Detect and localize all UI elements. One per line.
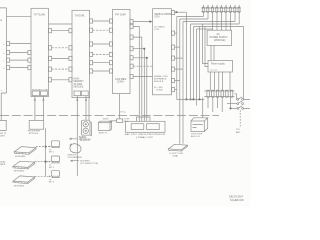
svg-text:MODULE: MODULE <box>29 133 39 135</box>
svg-text:INTERFACE: INTERFACE <box>154 78 167 81</box>
card C bottom text block <box>74 79 85 89</box>
svg-text:a: a <box>1 90 2 92</box>
top run y21.5 <box>183 13 235 22</box>
monitor 3 <box>51 171 59 178</box>
cloud caption <box>68 155 83 160</box>
vertical bundle wire x183 to disk <box>182 22 184 144</box>
wire E pin2 to bundle <box>175 32 177 34</box>
card E body <box>153 9 172 95</box>
svg-text:SET 3: SET 3 <box>49 182 54 184</box>
wire C conn down long bus <box>76 96 78 176</box>
power terminal strip TS1 (top right) <box>201 7 241 12</box>
svg-text:a b c d e: a b c d e <box>210 70 217 72</box>
lower terminal strip TS2 <box>204 90 234 97</box>
svg-text:SET 2: SET 2 <box>49 167 54 169</box>
power supply unit PSU box <box>208 60 233 72</box>
TS1 wires down into AC supply <box>213 13 231 31</box>
svg-text:SET 1: SET 1 <box>49 152 54 154</box>
svg-text:AS IO-01: AS IO-01 <box>191 135 201 138</box>
svg-text:DUAL: DUAL <box>0 161 6 164</box>
svg-text:VIDEO: VIDEO <box>103 118 109 120</box>
wire C to phono jack 1 <box>85 96 87 121</box>
arrowhead into monitor2 <box>49 161 51 163</box>
card D bottom text <box>115 79 126 84</box>
wire card D down to RF modulator <box>119 94 121 119</box>
keyboard bus down <box>45 128 47 176</box>
keyboard bus junctions <box>45 146 47 148</box>
wire TS2 left run y99.4 <box>177 98 205 100</box>
wire C to D y44 <box>93 43 110 45</box>
TV box <box>98 121 111 130</box>
floppy caption <box>170 153 184 158</box>
left power bundle x193.5 <box>193 27 195 100</box>
svg-text:c: c <box>3 61 4 63</box>
wire C to D y21 <box>93 20 110 22</box>
wire B pin3 to C <box>52 57 69 59</box>
svg-text:CONN: CONN <box>156 89 163 91</box>
junction dot v4 <box>146 57 148 59</box>
KB unit caption <box>0 133 7 138</box>
svg-text:17 ma: 17 ma <box>120 111 127 113</box>
top run y26.5 <box>194 26 244 28</box>
left power bundle x196.5 <box>196 29 198 106</box>
vertical power wire v3 <box>133 49 144 122</box>
tape recorder text <box>79 136 91 142</box>
wire E pin6 to bundle <box>175 80 180 82</box>
keyboard slab 1 <box>14 147 36 155</box>
vertical bundle wire x186.4 <box>185 12 187 99</box>
svg-text:MODULE: MODULE <box>154 81 164 83</box>
svg-text:AC: AC <box>217 33 221 36</box>
svg-text:P-P CHIP: P-P CHIP <box>115 14 126 17</box>
PSU bottom stub wires <box>210 72 230 90</box>
wire C to phono jack 2 <box>88 96 90 121</box>
wire RF box to TV <box>110 121 117 123</box>
processor caption <box>125 133 166 139</box>
svg-text:HIGH: HIGH <box>74 79 80 81</box>
wire B conn1 down to keyboard box <box>34 96 36 121</box>
monitor1 caption <box>49 149 54 153</box>
svg-text:UNIT: UNIT <box>0 135 6 137</box>
wire A pin4 to B <box>10 67 28 69</box>
top run y29 <box>197 28 213 30</box>
monitor2 caption <box>49 165 54 169</box>
card D right pins <box>130 20 133 79</box>
svg-text:(MODULE): (MODULE) <box>214 40 226 42</box>
keyboard slab 2 <box>13 161 35 169</box>
right edge feeder wire <box>243 27 245 100</box>
wire B pin5 to C <box>52 79 69 81</box>
wire slab1 to monitor1 <box>36 146 50 148</box>
svg-text:d: d <box>3 68 4 70</box>
svg-text:CON: CON <box>154 29 159 31</box>
svg-text:SCHEM 0/6: SCHEM 0/6 <box>230 198 244 202</box>
svg-text:SYNTHESIZER: SYNTHESIZER <box>68 157 83 159</box>
antenna dashed wire <box>239 110 241 127</box>
svg-text:KEYBOARD: KEYBOARD <box>14 170 25 173</box>
card B right pins <box>49 29 52 82</box>
svg-text:TV-DSPL: TV-DSPL <box>75 15 86 18</box>
wire E top pin right to bundle <box>175 11 187 13</box>
TTY feed wire <box>202 97 204 117</box>
svg-text:KEYBOARD: KEYBOARD <box>15 155 26 158</box>
KB unit box (cropped at left) <box>0 120 6 130</box>
wire C to D y30 (dashed) <box>93 29 110 31</box>
vertical bundle wire x179.8 to disk <box>179 19 181 144</box>
switch S1 <box>234 94 250 101</box>
svg-text:MODULAR CONN: MODULAR CONN <box>32 88 48 91</box>
wire C to D y62 <box>93 62 110 64</box>
dashed separator line <box>0 115 219 117</box>
svg-text:DELTA SMT: DELTA SMT <box>229 195 243 199</box>
wire E pin3 to bundle <box>175 46 180 48</box>
wire slab3 to monitor3 <box>35 175 50 177</box>
svg-text:LOW MEM: LOW MEM <box>115 79 126 81</box>
svg-text:TLF: TLF <box>236 129 241 131</box>
wire E pin4 to bundle <box>175 57 183 59</box>
title note bottom right <box>229 195 244 203</box>
keyboard slab 3 <box>13 176 35 184</box>
wire B pin4 to C (dashed) <box>52 68 69 70</box>
RF modulator label right <box>124 119 130 123</box>
phono caption <box>80 136 90 142</box>
wires AC box down to PSU <box>211 46 214 61</box>
phono jack unit (cassette I/O) <box>81 120 91 136</box>
wire C to D y71 <box>93 70 110 72</box>
vertical bundle wire x176.8 <box>176 16 178 99</box>
wire D pin1 to E with junction <box>133 21 152 23</box>
keyboard buffer caption <box>28 130 41 135</box>
svg-text:Power supply: Power supply <box>211 63 226 66</box>
DUAL TAPE label <box>0 161 6 167</box>
card D left pins <box>109 19 112 73</box>
card B body <box>31 8 49 96</box>
processor inner box 1 <box>131 124 144 130</box>
wire A pin3 to B <box>10 59 28 61</box>
vertical power wire v4 <box>133 58 147 122</box>
keyboard buffer box <box>29 120 44 129</box>
left power bundle x205 into PSU <box>205 27 208 67</box>
svg-text:4K RAM: 4K RAM <box>74 83 83 86</box>
wire D pin6 to E (dashed) <box>133 65 152 67</box>
left power bundle x199.5 <box>199 27 201 100</box>
card D body <box>113 9 131 93</box>
svg-text:b: b <box>3 53 4 55</box>
card C body <box>72 10 90 97</box>
vertical power wire v1 <box>133 27 139 122</box>
wire D pin7 to E <box>133 76 152 78</box>
card C left pins <box>69 29 72 82</box>
wire E pin5 to bundle <box>175 68 183 70</box>
teletype 3D box <box>191 118 208 132</box>
left power bundle x202.5 into PSU <box>203 24 209 64</box>
card C right pins <box>90 19 93 73</box>
svg-text:POWER SUPPLY: POWER SUPPLY <box>210 37 229 39</box>
top run y24 <box>191 13 240 25</box>
RF modulator box <box>117 119 123 123</box>
vertical power wire v2 <box>133 37 142 121</box>
arrowhead into monitor1 <box>49 146 51 148</box>
wire B conn2 down to keyboard box <box>42 96 44 121</box>
modems text <box>80 161 98 166</box>
svg-text:MEMORY: MEMORY <box>74 81 85 83</box>
svg-text:SERIAL CTRL: SERIAL CTRL <box>154 75 169 78</box>
wire B pin2 to C (dashed) <box>52 47 69 49</box>
speech synthesizer cloud <box>70 144 81 153</box>
bus branch: modems arrow <box>71 160 80 162</box>
left power bundle x190.5 <box>190 24 192 99</box>
junction dot TS2 <box>230 108 232 110</box>
wire A pin1 to B <box>10 43 31 45</box>
monitor3 caption <box>49 179 54 183</box>
svg-text:(TBA): (TBA) <box>173 155 179 158</box>
TS2 down wires <box>208 97 231 112</box>
svg-text:SAL-T/DC CMOS PROCESSOR: SAL-T/DC CMOS PROCESSOR <box>125 133 166 136</box>
floppy disk slab (TBA) <box>168 144 187 151</box>
wire B pin1 to C <box>52 30 69 32</box>
card C bottom connector boxes <box>74 91 88 96</box>
card E bottom text block <box>154 75 169 91</box>
card B bottom connector boxes <box>32 88 48 95</box>
monitor 1 <box>51 141 59 148</box>
bus branch: tape recorder arrow <box>70 138 78 140</box>
arrowhead into monitor3 <box>49 176 51 178</box>
svg-text:B&W TV: B&W TV <box>99 133 108 135</box>
wire slab2 to monitor2 <box>35 161 50 163</box>
card E right pins <box>172 11 175 92</box>
teletype caption <box>191 134 203 139</box>
TS1 top ticks <box>204 5 240 7</box>
wire A pin2 to B <box>10 52 28 54</box>
top run y19 <box>180 13 208 20</box>
svg-text:CPU: CPU <box>155 16 160 18</box>
svg-text:A/TAPE: A/TAPE <box>79 136 87 139</box>
top run y16.4 <box>177 13 204 17</box>
junction dot on E top wire <box>176 11 178 13</box>
junction dot v3 <box>143 48 145 50</box>
card B left pins <box>28 51 31 70</box>
processor motherboard box <box>126 121 166 132</box>
svg-text:TV-TC/AB: TV-TC/AB <box>34 14 46 17</box>
svg-text:a: a <box>3 44 4 46</box>
switch S3 <box>231 106 250 109</box>
wire card A down to KB unit <box>0 93 2 120</box>
wire C to D y54 (dashed) <box>93 53 110 55</box>
junction dots on y99.4 run <box>186 99 188 101</box>
antenna caption <box>236 129 241 134</box>
svg-text:KEYBOARD: KEYBOARD <box>14 184 25 187</box>
svg-text:(PC SUBSTITUTE): (PC SUBSTITUTE) <box>80 163 98 165</box>
svg-text:TAPE: TAPE <box>0 163 6 166</box>
svg-text:CONN: CONN <box>117 82 124 84</box>
AC power supply box <box>207 30 232 45</box>
svg-text:MODULE: MODULE <box>74 87 84 89</box>
card A (partial, cropped at left edge) <box>0 8 10 93</box>
arrowheads up into card B connectors <box>34 98 44 101</box>
card E title <box>155 14 172 19</box>
card A pin labels <box>1 44 4 92</box>
switch S2 <box>227 101 244 104</box>
monitor 2 <box>51 156 59 163</box>
svg-text:RECORDER: RECORDER <box>79 139 91 141</box>
svg-text:(TBA) O/P: (TBA) O/P <box>136 136 154 139</box>
arrowheads into card C connectors <box>77 98 87 101</box>
wire card A top to card B <box>7 16 32 18</box>
wire B to C at y24 <box>49 23 73 25</box>
svg-text:ANT.: ANT. <box>236 131 241 134</box>
junction dot at E left edge <box>149 21 151 23</box>
junction dots on left run <box>193 99 195 101</box>
processor inner box 2 <box>147 124 160 130</box>
processor box tab <box>137 117 151 121</box>
card E inner text block <box>154 26 165 32</box>
wire E pin7 to bundle <box>175 89 177 91</box>
